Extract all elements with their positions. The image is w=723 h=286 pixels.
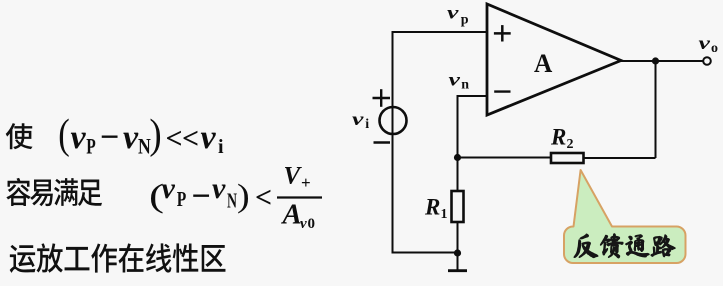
- svg-text:2: 2: [567, 137, 574, 152]
- svg-text:<: <: [182, 122, 199, 155]
- svg-text:): ): [149, 112, 161, 158]
- callout bubble (feedback path): [564, 170, 686, 263]
- svg-text:v: v: [71, 119, 87, 156]
- ground symbol bar: [448, 269, 467, 272]
- wire: v_n horizontal into - input: [457, 95, 488, 97]
- line 1 Chinese 使: [6, 123, 33, 149]
- svg-text:<: <: [166, 122, 183, 155]
- wire: feedback node to R2 left: [458, 157, 552, 159]
- op-amp - input marker: [494, 90, 510, 92]
- svg-text:A: A: [281, 199, 302, 231]
- svg-text:P: P: [177, 187, 187, 211]
- output terminal circle: [703, 57, 711, 65]
- svg-text:P: P: [86, 134, 96, 159]
- wire: v_n vertical down to feedback node: [457, 95, 459, 158]
- svg-text:(: (: [58, 112, 69, 158]
- wire: feedback right vertical: [655, 61, 657, 158]
- ground junction dot: [454, 249, 461, 256]
- line 2 Chinese 容易满足: [6, 178, 30, 206]
- svg-text:v: v: [300, 216, 307, 232]
- svg-text:v: v: [123, 119, 139, 156]
- svg-text:): ): [237, 179, 250, 215]
- wire: feedback node down to R1: [457, 158, 459, 192]
- wire: R1 to ground node: [457, 222, 459, 253]
- svg-text:p: p: [461, 13, 469, 28]
- line 3 Chinese 运放工作在线性区: [10, 245, 36, 273]
- svg-text:1: 1: [441, 207, 448, 222]
- svg-text:i: i: [365, 117, 369, 132]
- svg-text:v: v: [699, 33, 712, 53]
- fraction bar: [277, 196, 322, 198]
- svg-text:−: −: [192, 178, 211, 215]
- feedback node junction dot: [454, 154, 461, 161]
- svg-text:o: o: [711, 41, 718, 56]
- source v_i circle: [380, 107, 407, 134]
- svg-text:V: V: [284, 163, 303, 190]
- resistor R1 body: [452, 191, 464, 222]
- output junction dot: [652, 57, 659, 64]
- svg-text:v: v: [352, 109, 365, 129]
- svg-text:v: v: [201, 119, 217, 156]
- svg-text:R: R: [424, 195, 440, 220]
- svg-text:R: R: [550, 125, 566, 150]
- wire: left vertical from top wire through source v_i: [392, 31, 394, 253]
- wire: output from op-amp apex: [621, 60, 703, 62]
- svg-text:N: N: [227, 189, 237, 213]
- svg-text:+: +: [301, 173, 311, 192]
- svg-text:A: A: [534, 48, 552, 78]
- source v_i plus sign: [373, 97, 391, 99]
- callout text 反馈通路: [574, 234, 598, 258]
- svg-text:v: v: [447, 3, 460, 23]
- svg-text:v: v: [212, 172, 226, 205]
- svg-text:v: v: [449, 70, 462, 90]
- wire: R2 right to feedback vertical: [584, 157, 656, 159]
- resistor R2 body: [551, 153, 584, 163]
- svg-text:i: i: [218, 136, 224, 158]
- svg-text:<: <: [255, 181, 272, 214]
- svg-text:v: v: [162, 172, 176, 205]
- svg-text:−: −: [100, 119, 119, 156]
- wire: bottom from source to ground node: [392, 252, 458, 254]
- svg-text:0: 0: [308, 216, 316, 232]
- line 1 math (vP - vN) << vi: [58, 112, 224, 159]
- line 2 math (vP - vN) < V+/Avo: [149, 163, 322, 233]
- op-amp + input marker: [494, 32, 511, 35]
- wire: ground stub: [457, 253, 459, 270]
- op-amp U1 triangle: [487, 4, 621, 115]
- svg-text:n: n: [461, 78, 469, 93]
- wire: top from source to op-amp + input: [393, 31, 488, 33]
- source v_i minus sign: [374, 141, 391, 143]
